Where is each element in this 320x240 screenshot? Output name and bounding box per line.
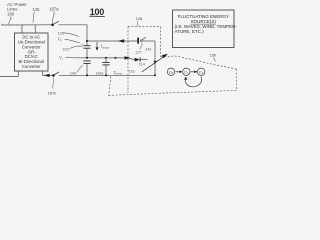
- wire: stub from AC rail into converter box (right): [34, 25, 37, 33]
- node: junction mid rail / cap 116a: [86, 57, 88, 59]
- wire: top AC rail left segment: [2, 24, 52, 25]
- svg-text:167a: 167a: [49, 6, 59, 11]
- dashed control box: right vertical: [160, 27, 162, 57]
- arrow C1 to C2: [191, 71, 196, 73]
- wire: right vertical rail: [154, 41, 156, 75]
- svg-text:C2: C2: [199, 70, 204, 75]
- loop arrow under C1/C2: [185, 77, 201, 87]
- wire: bottom rail left L from converter: [0, 71, 18, 76]
- leader from 126 to cap: [70, 46, 83, 49]
- svg-text:ATURE, ETC.): ATURE, ETC.): [175, 29, 205, 34]
- fluctuating energy source box: [173, 10, 235, 48]
- node: switch 167a terminal dot: [51, 24, 54, 27]
- wire: stub from AC rail into converter box (left): [21, 25, 24, 33]
- svg-text:116a: 116a: [96, 71, 105, 75]
- diode 114 triangle: [135, 58, 140, 62]
- dashed control box: top: [128, 26, 161, 28]
- node: junction bottom rail / tank cap: [105, 74, 107, 76]
- svg-text:127: 127: [135, 50, 142, 55]
- dashed enclosure: right vertical: [236, 69, 238, 90]
- arrowhead (current direction, pointing right) on mid rail: [125, 56, 131, 59]
- arrowhead (current direction, pointing left) on bottom rail: [44, 74, 50, 77]
- svg-text:Tprime: Tprime: [113, 70, 123, 76]
- svg-text:140: 140: [70, 70, 77, 75]
- wire: cap 116a bottom lead: [86, 63, 88, 75]
- svg-text:Converter: Converter: [22, 64, 41, 69]
- wire: diode to switch 141: [140, 59, 147, 61]
- svg-text:126: 126: [62, 47, 69, 52]
- leader from 125: [64, 33, 79, 37]
- capacitor 116a plates: [83, 60, 90, 62]
- svg-text:150: 150: [210, 53, 217, 58]
- switch 141 blade with arrow to energy source: [142, 55, 167, 72]
- svg-text:100: 100: [90, 7, 105, 17]
- switch 167b blade: [54, 72, 59, 75]
- dashed control box: left vertical: [127, 27, 129, 93]
- leader from 140 to cap 116a: [77, 65, 83, 72]
- diode 114 bar: [139, 58, 141, 62]
- converter box U1: [15, 33, 49, 71]
- switch 127 blade: [142, 37, 146, 40]
- svg-text:116: 116: [129, 70, 135, 74]
- converter box text: [18, 35, 45, 70]
- svg-text:125: 125: [58, 30, 65, 35]
- leader from label 160 to AC line: [9, 17, 11, 25]
- node: junction mid rail at T_prime tap: [115, 57, 117, 59]
- wire: tank cap top lead: [105, 58, 107, 63]
- state circle C2: [198, 68, 205, 75]
- state circle C0: [167, 68, 174, 75]
- svg-text:114: 114: [139, 63, 145, 67]
- wire: tank cap bottom lead: [105, 65, 107, 75]
- arrow C0 to C1: [175, 71, 180, 73]
- state circle C1: [183, 68, 190, 75]
- svg-text:141: 141: [145, 47, 152, 52]
- svg-text:128: 128: [136, 16, 143, 21]
- switch 127 hinge circle: [140, 40, 142, 42]
- dashed enclosure: left vertical: [109, 77, 111, 96]
- capacitor (tank) at node T plates: [102, 61, 109, 63]
- svg-text:C1: C1: [184, 70, 189, 75]
- arrowhead (current direction, pointing left) on branch wire: [118, 39, 124, 43]
- leader tick from 128 to dashed control line: [137, 21, 139, 26]
- svg-text:Vp: Vp: [58, 36, 63, 42]
- svg-text:C0: C0: [169, 70, 174, 75]
- capacitor 126 plates: [83, 45, 90, 47]
- wire: from switch 127 to right rail: [142, 40, 155, 42]
- node: junction right rail / bottom rail: [154, 74, 156, 76]
- node: switch 167b terminal dot: [52, 74, 55, 77]
- wire: bottom rail right segment: [59, 74, 155, 76]
- leader from Vs to mid rail: [66, 56, 74, 59]
- node: junction dot at cap 126 top / surge branch: [86, 40, 88, 42]
- dashed link to energy source: [161, 56, 237, 69]
- energy source box text: [175, 14, 238, 34]
- leader from 127 to switch: [140, 43, 142, 50]
- switch 127 contact bar: [137, 38, 139, 44]
- node: junction mid rail / cap at 106: [105, 57, 107, 59]
- leader from 167a to switch: [52, 11, 54, 23]
- svg-text:160: 160: [7, 11, 15, 16]
- wire: converter bottom to switch 167b: [43, 71, 53, 75]
- leader from 125 to wire: [33, 12, 35, 22]
- dashed enclosure: bottom: [109, 90, 237, 95]
- wire: cap 126 bottom lead: [86, 48, 88, 57]
- leader from Vp: [65, 39, 81, 43]
- svg-text:167b: 167b: [48, 91, 58, 96]
- node: junction bottom rail / cap 116a: [86, 74, 88, 76]
- underline of 100: [89, 15, 105, 17]
- wire: mid rail: [74, 58, 135, 60]
- switch 167a blade: [53, 21, 58, 24]
- label: AC Power Lines 160: [7, 2, 27, 17]
- arrowhead (current direction, pointing down) on right rail: [154, 61, 157, 64]
- leader tick from 150: [214, 58, 216, 62]
- I_surge arrow: [96, 42, 98, 48]
- svg-text:125: 125: [33, 7, 41, 12]
- leader from 167b to switch: [53, 78, 54, 89]
- wire: branch y=41 to switch 127: [87, 40, 137, 42]
- wire: top AC rail right segment: [59, 25, 87, 46]
